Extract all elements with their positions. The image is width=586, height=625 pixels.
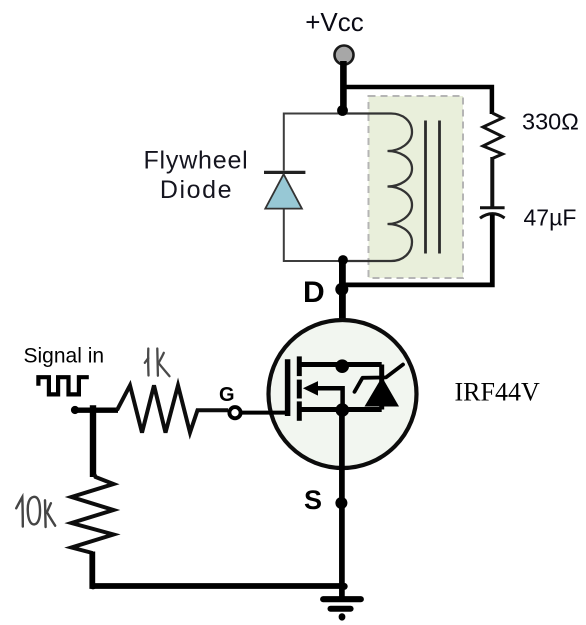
svg-text:S: S: [304, 485, 322, 515]
node ground junction: [341, 583, 348, 590]
svg-text:Flywheel: Flywheel: [143, 147, 248, 175]
node source internal junction: [336, 403, 350, 417]
wire gate terminal to gate: [241, 411, 288, 415]
node junction top (coil/diode/Vcc): [337, 105, 348, 116]
wire 10k to ground rail: [92, 552, 343, 587]
capacitor C1 47uF: [480, 208, 505, 218]
label 1k handwritten: [145, 349, 170, 377]
gate terminal circle: [229, 407, 240, 418]
wire junction to drain: [339, 262, 346, 366]
node S source junction: [335, 497, 347, 509]
wire tap to right branch: [343, 87, 492, 114]
wire input junction down to 10k: [90, 405, 96, 477]
node junction bottom (coil/diode): [338, 255, 348, 265]
resistor R2 1k zigzag: [117, 385, 228, 432]
node drain internal junction: [335, 359, 349, 373]
diode D1 flywheel: cathode bar: [264, 171, 305, 174]
Q1 source internal bar: [299, 407, 381, 412]
svg-text:330Ω: 330Ω: [522, 109, 579, 135]
Q1 body arrow shaft: [310, 388, 343, 408]
label 10k handwritten: [16, 497, 55, 527]
transistor Q1 MOSFET body circle: [269, 320, 417, 468]
Q1 channel segment bottom: [297, 401, 302, 420]
resistor R3 10k zigzag: [72, 475, 114, 554]
square wave symbol: [38, 377, 88, 394]
Q1 body diode triangle: [365, 377, 400, 407]
svg-text:D: D: [303, 276, 325, 309]
Q1 body arrow head: [303, 381, 318, 396]
wire Vcc to top junction: [340, 61, 347, 114]
relay core line 2: [438, 121, 441, 254]
Q1 drain internal bar: [299, 362, 381, 367]
Q1 gate bar: [285, 359, 291, 416]
Q1 channel segment top: [297, 356, 302, 376]
wire input to 1k: [75, 408, 118, 413]
Q1 body zener bar: [355, 365, 404, 392]
svg-text:Signal in: Signal in: [24, 345, 105, 368]
ground symbol: [323, 599, 361, 609]
wire source to ground: [339, 410, 345, 597]
wire resistor to capacitor: [490, 157, 494, 207]
svg-text:+Vcc: +Vcc: [305, 7, 364, 37]
svg-text:G: G: [219, 384, 235, 406]
svg-text:Diode: Diode: [160, 176, 233, 204]
node D drain junction: [335, 283, 348, 296]
relay core line 1: [424, 121, 427, 254]
power terminal +Vcc: [335, 46, 354, 65]
svg-text:47µF: 47µF: [524, 205, 577, 231]
wire flywheel diode branch: [284, 114, 343, 262]
relay coil box: [369, 96, 464, 278]
node input terminal dot: [71, 406, 79, 414]
resistor R1 330ohm: [483, 113, 503, 159]
Q1 internal vertical bar (body diode): [379, 365, 384, 410]
node rail corner dot: [90, 583, 97, 590]
inductor L1 relay coil: [343, 114, 413, 262]
svg-text:IRF44V: IRF44V: [455, 378, 540, 407]
wire capacitor to bottom rail of right branch: [343, 215, 493, 285]
diode D1 flywheel: triangle: [265, 174, 302, 208]
Q1 channel segment middle: [297, 380, 302, 399]
